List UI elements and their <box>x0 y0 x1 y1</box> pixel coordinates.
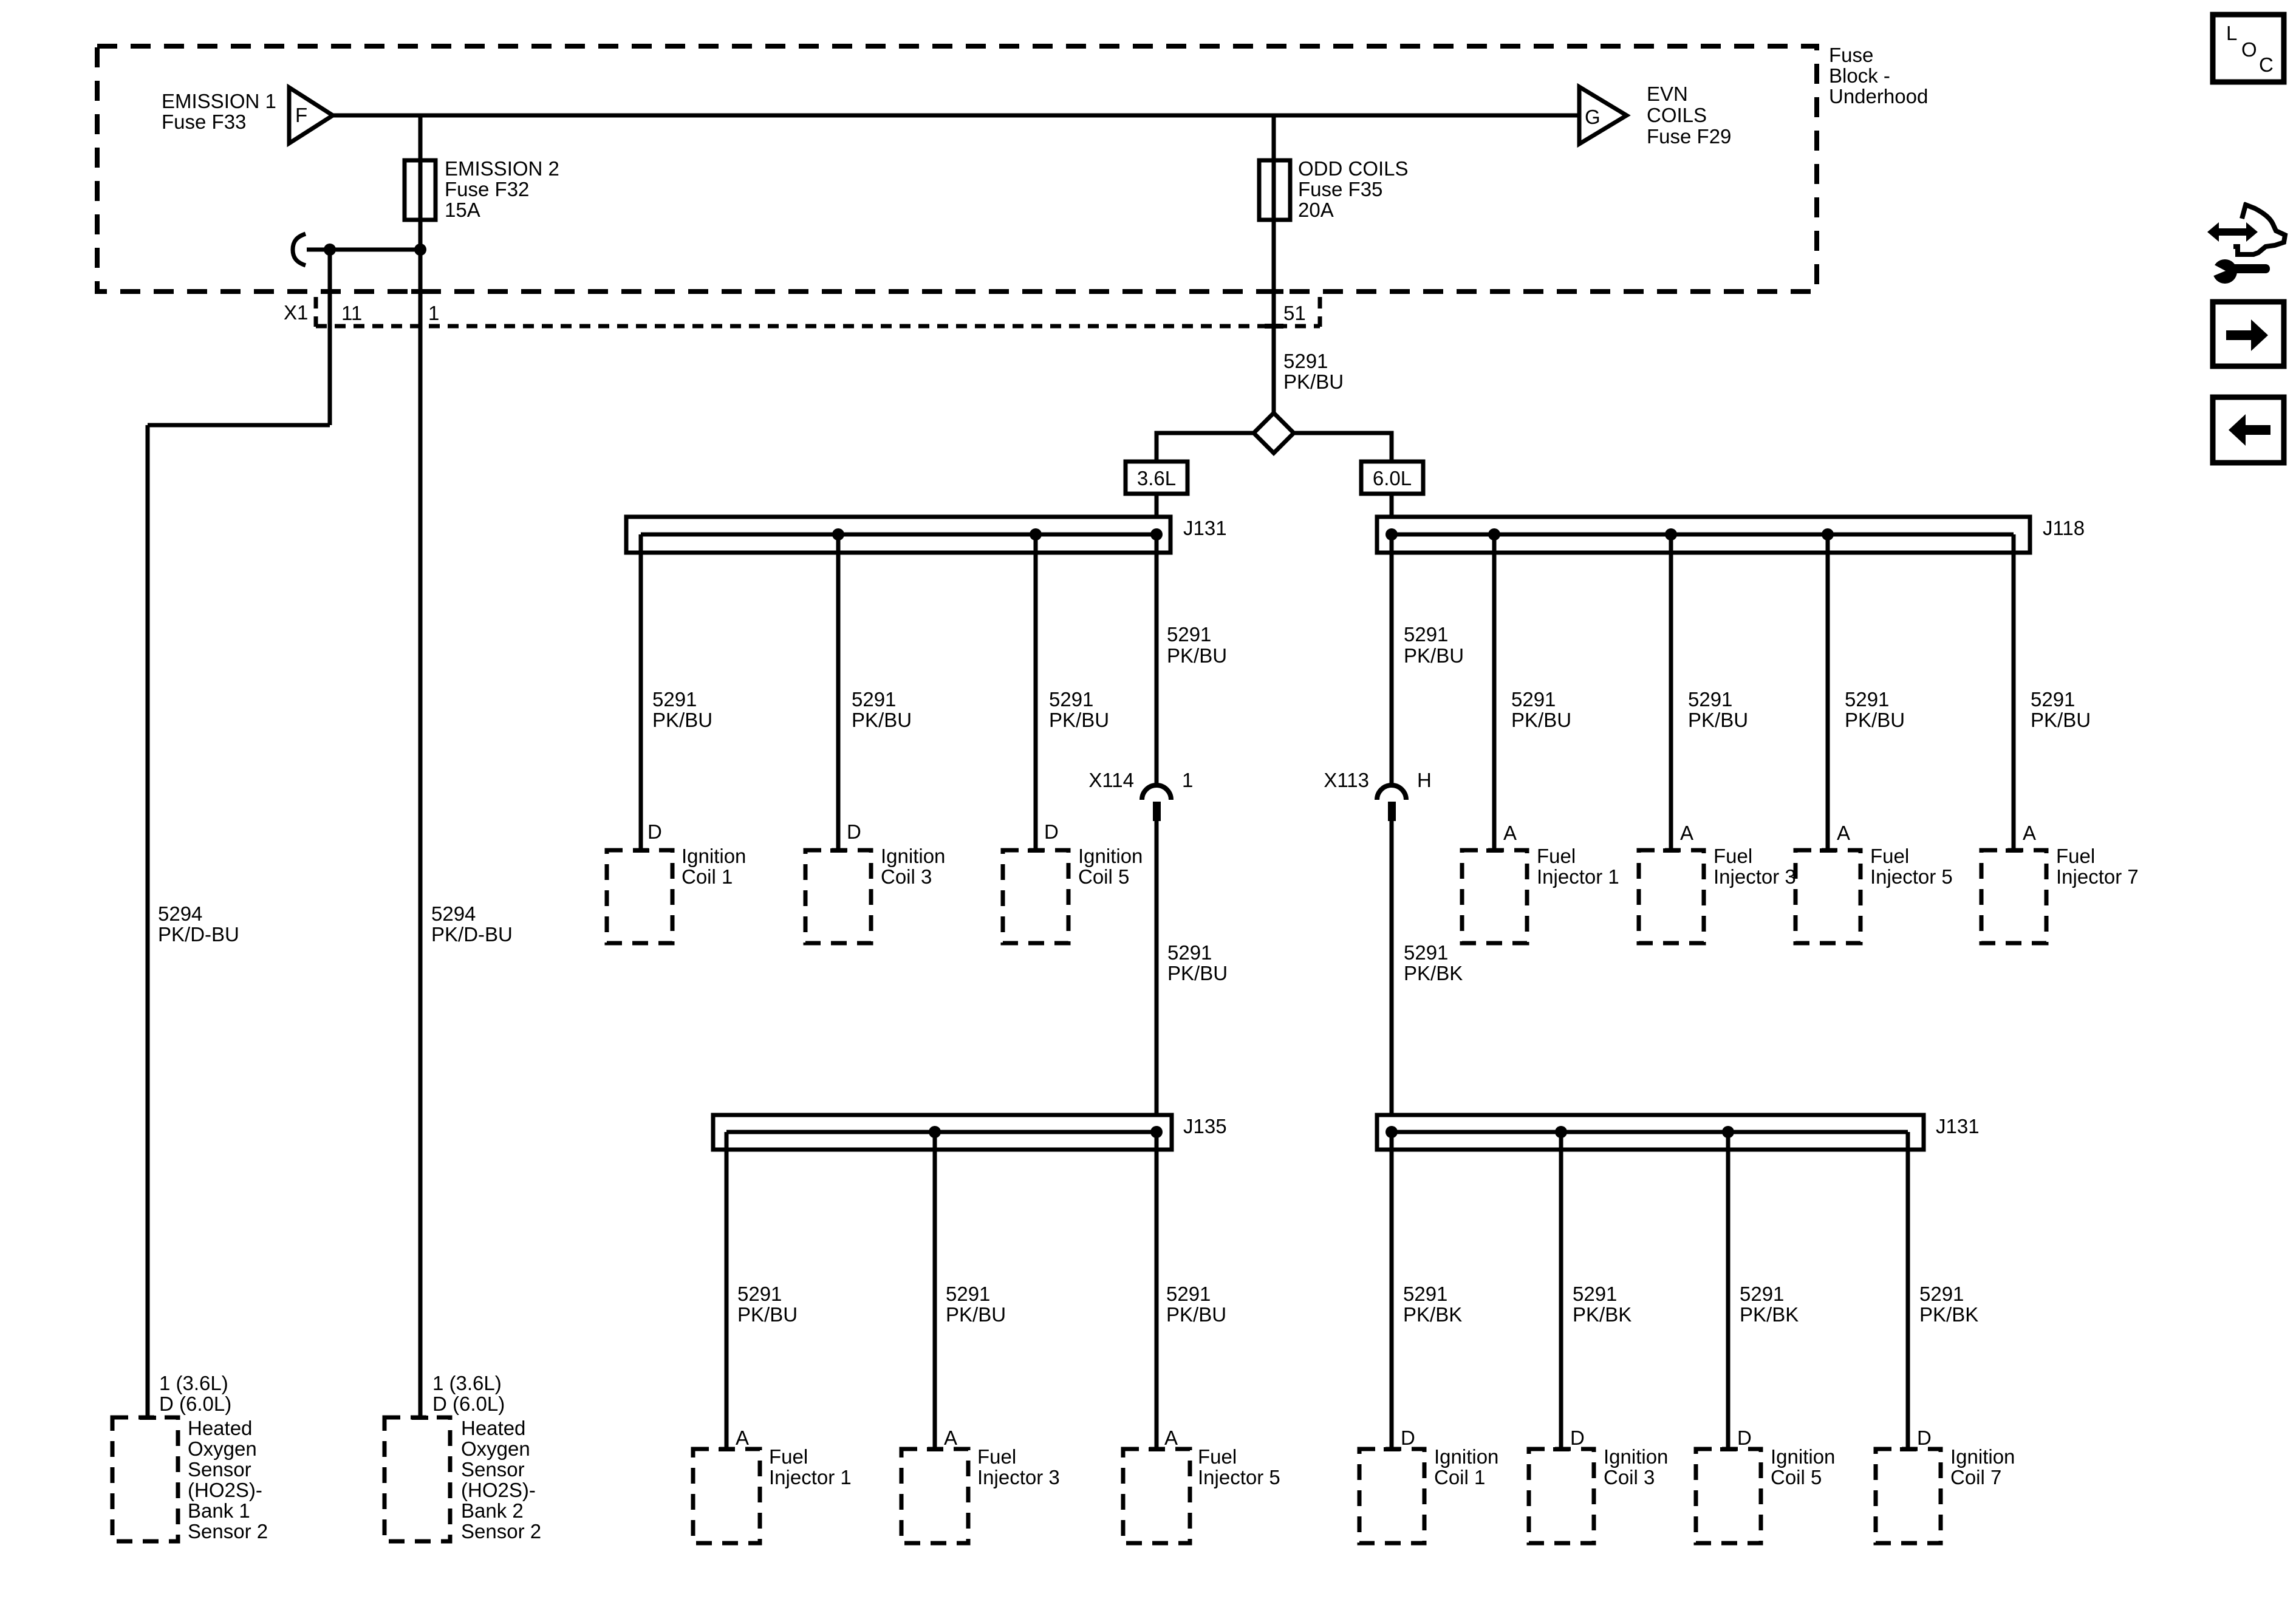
label 5291 inj3 <box>1688 688 1748 731</box>
svg-text:1: 1 <box>428 302 439 324</box>
svg-text:PK/BK: PK/BK <box>1403 1303 1462 1326</box>
power triangle G <box>1579 87 1627 144</box>
wire inj3 lower drop <box>933 1132 937 1449</box>
svg-text:Injector 5: Injector 5 <box>1870 865 1953 888</box>
back arrow icon <box>2213 397 2284 463</box>
svg-text:11: 11 <box>341 302 362 324</box>
svg-text:Ignition: Ignition <box>1434 1445 1498 1468</box>
wire EMISSION 2 drop <box>419 115 423 250</box>
fuel injector 3 (bottom row) <box>901 1445 1060 1543</box>
svg-text:Fuel: Fuel <box>1870 845 1909 867</box>
node dot J131 1904 <box>1150 528 1163 540</box>
connector X1 band bottom dashed line <box>316 324 1320 329</box>
svg-text:Ignition: Ignition <box>1604 1445 1668 1468</box>
car service icon <box>2207 203 2285 284</box>
wire ODD COILS drop <box>1272 115 1276 413</box>
splice pack J131 top left <box>626 517 1227 553</box>
wire X114 to J135 <box>1155 821 1159 1115</box>
LOC icon <box>2213 15 2284 82</box>
wire coil5 drop <box>1034 534 1038 850</box>
splice diamond <box>1254 413 1294 453</box>
svg-text:C: C <box>2259 53 2274 76</box>
svg-text:5291: 5291 <box>1166 1283 1211 1305</box>
svg-text:Ignition: Ignition <box>1771 1445 1835 1468</box>
svg-text:PK/BU: PK/BU <box>1167 644 1227 667</box>
connector X1 right bracket <box>1318 297 1322 327</box>
label 5291 coil3 <box>852 688 912 731</box>
svg-text:D: D <box>1401 1427 1415 1449</box>
wire 3.6L to J131 <box>1155 494 1159 517</box>
svg-text:Fuse F33: Fuse F33 <box>162 111 246 133</box>
label 5291 inj1 lower <box>737 1283 798 1326</box>
svg-text:L: L <box>2226 22 2237 44</box>
svg-text:Fuel: Fuel <box>1537 845 1576 867</box>
connector X1 left bracket <box>314 297 318 327</box>
svg-text:J131: J131 <box>1183 517 1227 539</box>
svg-text:Coil 5: Coil 5 <box>1078 865 1129 888</box>
svg-text:Fuse F35: Fuse F35 <box>1298 178 1382 200</box>
svg-text:5294: 5294 <box>431 902 476 925</box>
svg-text:Injector 7: Injector 7 <box>2056 865 2139 888</box>
svg-text:Heated: Heated <box>461 1417 525 1439</box>
svg-text:Ignition: Ignition <box>1078 845 1143 867</box>
svg-text:Bank 2: Bank 2 <box>461 1499 524 1522</box>
svg-text:PK/BK: PK/BK <box>1919 1303 1978 1326</box>
label 5291 inj7 <box>2031 688 2091 731</box>
svg-text:G: G <box>1585 106 1601 128</box>
wire J118 to X113 <box>1390 534 1394 788</box>
svg-text:D: D <box>647 820 662 843</box>
svg-text:PK/BU: PK/BU <box>737 1303 798 1326</box>
fuel injector 7 (top row) <box>1981 845 2139 943</box>
svg-text:O: O <box>2241 38 2257 61</box>
svg-text:PK/BU: PK/BU <box>1167 962 1228 984</box>
svg-text:Ignition: Ignition <box>682 845 746 867</box>
connector X114 <box>1088 769 1193 821</box>
svg-text:Fuel: Fuel <box>769 1445 808 1468</box>
svg-text:PK/BK: PK/BK <box>1404 962 1463 984</box>
svg-text:X114: X114 <box>1088 769 1134 791</box>
fuse F35 <box>1259 160 1290 220</box>
svg-text:PK/BU: PK/BU <box>946 1303 1006 1326</box>
svg-text:PK/BU: PK/BU <box>852 709 912 731</box>
svg-text:5291: 5291 <box>946 1283 990 1305</box>
fuel injector 1 (bottom row) <box>693 1445 852 1543</box>
node dot J131b 2291 <box>1385 1126 1398 1138</box>
svg-text:PK/BU: PK/BU <box>1283 370 1344 393</box>
wire X113 to J131 lower <box>1390 821 1394 1115</box>
label 5291 inj1 <box>1511 688 1571 731</box>
wire coil7 lower drop <box>1906 1132 1910 1449</box>
label 5291 inj3 lower <box>946 1283 1006 1326</box>
connector X113 <box>1324 769 1431 821</box>
svg-text:Injector 5: Injector 5 <box>1198 1466 1280 1488</box>
svg-text:J118: J118 <box>2043 517 2085 539</box>
label 5291 coil7 lower <box>1919 1283 1978 1326</box>
svg-text:PK/BU: PK/BU <box>2031 709 2091 731</box>
svg-text:(HO2S)-: (HO2S)- <box>188 1479 262 1501</box>
svg-text:5291: 5291 <box>1740 1283 1784 1305</box>
svg-text:Sensor: Sensor <box>188 1458 251 1481</box>
svg-text:Sensor 2: Sensor 2 <box>461 1520 541 1543</box>
wire coil5 lower drop <box>1726 1132 1731 1449</box>
svg-text:5291: 5291 <box>1404 623 1448 646</box>
ignition coil 5 (top row) <box>1003 845 1143 943</box>
svg-text:D: D <box>1737 1427 1752 1449</box>
label 5291 PK/BU feed right <box>1404 623 1464 667</box>
fuse block label <box>1829 44 1928 107</box>
svg-text:Block -: Block - <box>1829 64 1890 87</box>
svg-text:1 (3.6L): 1 (3.6L) <box>432 1372 502 1394</box>
svg-text:A: A <box>1837 822 1850 844</box>
svg-text:Oxygen: Oxygen <box>461 1437 530 1460</box>
node dot J118 2751 <box>1665 528 1677 540</box>
wire to HO2S bank1 <box>146 425 150 1417</box>
splice pack J131 bottom right <box>1377 1115 1980 1150</box>
svg-text:D: D <box>1570 1427 1585 1449</box>
wire inj3 drop <box>1669 534 1673 850</box>
svg-text:Ignition: Ignition <box>881 845 945 867</box>
svg-text:5291: 5291 <box>1919 1283 1964 1305</box>
svg-text:Underhood: Underhood <box>1829 85 1928 107</box>
clip symbol <box>293 234 306 265</box>
node dot J135 1904 <box>1150 1126 1163 1138</box>
svg-text:5291: 5291 <box>1845 688 1889 711</box>
svg-text:J135: J135 <box>1183 1115 1227 1137</box>
svg-text:Coil 1: Coil 1 <box>1434 1466 1485 1488</box>
svg-text:F: F <box>295 104 307 126</box>
fuse block - underhood dashed box <box>97 46 1817 291</box>
svg-text:Heated: Heated <box>188 1417 252 1439</box>
svg-text:PK/BU: PK/BU <box>1688 709 1748 731</box>
svg-text:3.6L: 3.6L <box>1137 467 1176 489</box>
label 5294 PK/D-BU right <box>431 902 513 946</box>
svg-text:A: A <box>736 1427 749 1449</box>
svg-text:Sensor 2: Sensor 2 <box>188 1520 268 1543</box>
heated oxygen sensor bank 2 <box>384 1416 541 1543</box>
svg-text:Oxygen: Oxygen <box>188 1437 257 1460</box>
svg-text:Coil 1: Coil 1 <box>682 865 733 888</box>
node dot J118 2291 <box>1385 528 1398 540</box>
svg-text:Coil 3: Coil 3 <box>1604 1466 1655 1488</box>
ignition coil 1 (bottom row) <box>1359 1445 1498 1543</box>
svg-text:5291: 5291 <box>1511 688 1556 711</box>
svg-text:H: H <box>1417 769 1432 791</box>
label 5291 coil5 <box>1049 688 1109 731</box>
node junction 543,411 <box>324 244 336 256</box>
svg-text:Fuel: Fuel <box>977 1445 1016 1468</box>
svg-text:PK/BU: PK/BU <box>1511 709 1571 731</box>
EMISSION 1 fuse F33 label <box>162 90 276 133</box>
wire coil3 lower drop <box>1559 1132 1563 1449</box>
pin label sensor2 <box>432 1372 505 1415</box>
fuel injector 3 (top row) <box>1639 845 1796 943</box>
wire main feed <box>333 114 1579 118</box>
wire coil1 drop <box>639 534 643 850</box>
svg-text:PK/BK: PK/BK <box>1740 1303 1799 1326</box>
wire coil3 drop <box>836 534 841 850</box>
splice pack J135 <box>713 1115 1227 1150</box>
label 5291 coil1 lower <box>1403 1283 1462 1326</box>
svg-text:5291: 5291 <box>1283 350 1328 372</box>
svg-text:PK/BU: PK/BU <box>1049 709 1109 731</box>
node dot J131 1380 <box>832 528 844 540</box>
svg-text:X113: X113 <box>1324 769 1369 791</box>
label 5294 PK/D-BU left <box>158 902 239 946</box>
label 5291 inj5 <box>1845 688 1905 731</box>
svg-text:Coil 3: Coil 3 <box>881 865 932 888</box>
3.6L box <box>1126 462 1187 494</box>
node dot J135 1539 <box>929 1126 941 1138</box>
svg-text:ODD COILS: ODD COILS <box>1298 157 1409 180</box>
svg-text:Fuel: Fuel <box>1713 845 1752 867</box>
6.0L box <box>1361 462 1423 494</box>
svg-text:(HO2S)-: (HO2S)- <box>461 1479 536 1501</box>
svg-text:PK/D-BU: PK/D-BU <box>431 923 513 946</box>
svg-text:PK/BU: PK/BU <box>1845 709 1905 731</box>
EVN COILS fuse F29 label <box>1647 83 1731 148</box>
node junction 692,411 <box>414 244 426 256</box>
svg-text:X1: X1 <box>284 301 308 324</box>
svg-text:51: 51 <box>1283 302 1306 324</box>
ignition coil 7 (bottom row) <box>1876 1445 2015 1543</box>
label 5291 coil3 lower <box>1573 1283 1631 1326</box>
svg-text:Coil 5: Coil 5 <box>1771 1466 1822 1488</box>
wire J131 to X114 <box>1155 534 1159 788</box>
svg-text:D: D <box>1917 1427 1932 1449</box>
svg-text:5291: 5291 <box>737 1283 782 1305</box>
svg-text:1: 1 <box>1182 769 1193 791</box>
svg-text:Injector 1: Injector 1 <box>1537 865 1619 888</box>
node dot J131 1705 <box>1030 528 1042 540</box>
svg-text:5291: 5291 <box>852 688 896 711</box>
svg-text:Injector 1: Injector 1 <box>769 1466 852 1488</box>
wire to HO2S bank2 <box>419 250 423 1417</box>
ignition coil 3 (bottom row) <box>1529 1445 1668 1543</box>
svg-text:Coil 7: Coil 7 <box>1950 1466 2001 1488</box>
svg-text:COILS: COILS <box>1647 104 1707 126</box>
fuse F32 <box>405 160 436 220</box>
wire jumper at y411 <box>307 248 420 252</box>
svg-text:Fuse: Fuse <box>1829 44 1873 66</box>
svg-text:PK/D-BU: PK/D-BU <box>158 923 239 946</box>
svg-text:Fuse F32: Fuse F32 <box>445 178 529 200</box>
svg-text:D (6.0L): D (6.0L) <box>432 1393 505 1415</box>
svg-text:EVN: EVN <box>1647 83 1688 105</box>
label 5291 coil5 lower <box>1740 1283 1799 1326</box>
svg-text:5291: 5291 <box>652 688 697 711</box>
svg-text:1 (3.6L): 1 (3.6L) <box>159 1372 228 1394</box>
splice pack J118 top right <box>1377 517 2085 553</box>
svg-text:D: D <box>1044 820 1059 843</box>
svg-text:Fuel: Fuel <box>2056 845 2095 867</box>
ignition coil 5 (bottom row) <box>1696 1445 1835 1543</box>
node dot J118 3009 <box>1822 528 1834 540</box>
wire jog left <box>148 423 330 428</box>
power triangle F <box>289 87 333 143</box>
label 5291 coil1 <box>652 688 712 731</box>
ignition coil 1 (top row) <box>607 845 746 943</box>
label 5291 inj5 lower <box>1166 1283 1226 1326</box>
svg-text:6.0L: 6.0L <box>1373 467 1412 489</box>
svg-text:5291: 5291 <box>1167 623 1211 646</box>
label 5291 PK/BU feed left <box>1167 623 1227 667</box>
wire inj5 drop <box>1826 534 1830 850</box>
fuel injector 1 (top row) <box>1462 845 1619 943</box>
wire inj7 drop <box>2012 534 2016 850</box>
fuse F32 label <box>445 157 559 221</box>
svg-text:Fuel: Fuel <box>1198 1445 1237 1468</box>
svg-text:5291: 5291 <box>1404 941 1448 964</box>
svg-text:Bank 1: Bank 1 <box>188 1499 250 1522</box>
tick crossings on band <box>321 289 1283 329</box>
label 5291 PK/BU mid left <box>1167 941 1228 984</box>
svg-text:D (6.0L): D (6.0L) <box>159 1393 231 1415</box>
svg-text:5291: 5291 <box>1403 1283 1447 1305</box>
wire coil1 lower drop <box>1390 1132 1394 1449</box>
wire inj1 drop <box>1492 534 1497 850</box>
svg-text:A: A <box>1164 1427 1178 1449</box>
forward arrow icon <box>2213 302 2284 366</box>
svg-text:Injector 3: Injector 3 <box>977 1466 1060 1488</box>
svg-text:Injector 3: Injector 3 <box>1713 865 1796 888</box>
svg-text:Fuse F29: Fuse F29 <box>1647 125 1731 148</box>
node dot J131b 2845 <box>1722 1126 1734 1138</box>
svg-text:5291: 5291 <box>2031 688 2075 711</box>
svg-text:5291: 5291 <box>1573 1283 1617 1305</box>
label 5291 PK/BK mid right <box>1404 941 1463 984</box>
fuse F35 label <box>1298 157 1409 221</box>
fuel injector 5 (top row) <box>1795 845 1953 943</box>
svg-text:PK/BU: PK/BU <box>1404 644 1464 667</box>
node dot J118 2460 <box>1488 528 1500 540</box>
svg-text:Ignition: Ignition <box>1950 1445 2015 1468</box>
svg-text:A: A <box>944 1427 957 1449</box>
svg-text:PK/BU: PK/BU <box>1166 1303 1226 1326</box>
svg-text:PK/BU: PK/BU <box>652 709 712 731</box>
svg-text:D: D <box>847 820 861 843</box>
svg-text:20A: 20A <box>1298 199 1334 221</box>
svg-text:J131: J131 <box>1936 1115 1980 1137</box>
wire diamond left branch <box>1157 433 1254 462</box>
wire inj5 lower drop <box>1155 1132 1159 1449</box>
svg-text:A: A <box>1503 822 1517 844</box>
wire 5291 PK/BU label top <box>1283 350 1344 393</box>
wire 6.0L to J118 <box>1390 494 1394 517</box>
svg-text:A: A <box>2023 822 2036 844</box>
svg-text:EMISSION 2: EMISSION 2 <box>445 157 559 180</box>
heated oxygen sensor bank 1 <box>112 1416 268 1543</box>
svg-text:EMISSION 1: EMISSION 1 <box>162 90 276 112</box>
svg-text:5291: 5291 <box>1167 941 1212 964</box>
ignition coil 3 (top row) <box>805 845 945 943</box>
pin label sensor1 <box>159 1372 231 1415</box>
wire X1 pin 11 drop <box>328 250 332 425</box>
svg-text:15A: 15A <box>445 199 480 221</box>
svg-text:Sensor: Sensor <box>461 1458 525 1481</box>
node dot J131b 2570 <box>1555 1126 1567 1138</box>
svg-text:5291: 5291 <box>1049 688 1093 711</box>
svg-text:A: A <box>1680 822 1693 844</box>
svg-text:5294: 5294 <box>158 902 202 925</box>
wire inj1 lower drop <box>725 1132 729 1449</box>
svg-text:5291: 5291 <box>1688 688 1732 711</box>
wire diamond right branch <box>1294 433 1392 462</box>
svg-text:PK/BK: PK/BK <box>1573 1303 1631 1326</box>
fuel injector 5 (bottom row) <box>1123 1445 1280 1543</box>
